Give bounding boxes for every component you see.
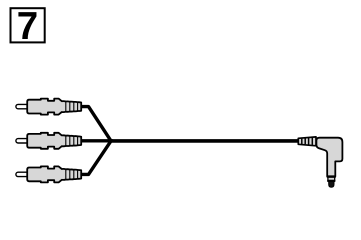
svg-text:7: 7 [17, 5, 38, 48]
